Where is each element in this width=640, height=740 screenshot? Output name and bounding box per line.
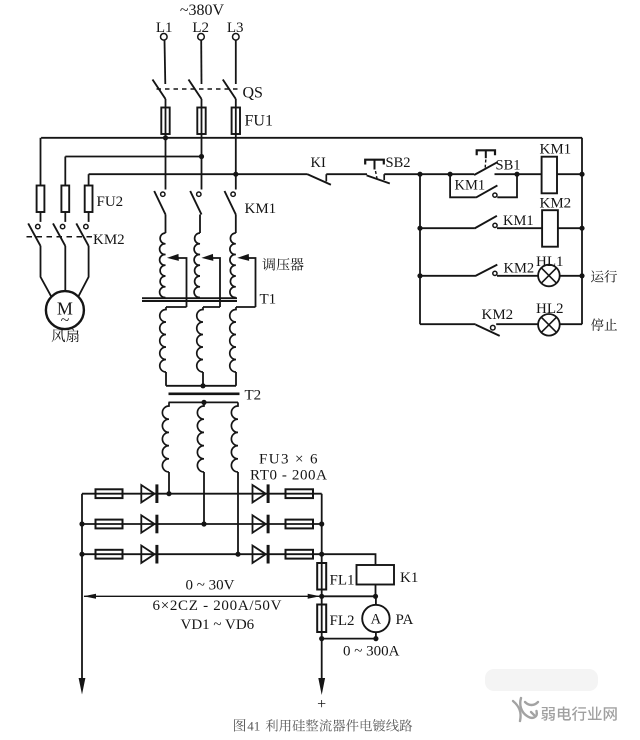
contactor KM2 coil <box>542 210 558 247</box>
label tingzhi (stop) <box>591 318 604 331</box>
fuse FU2 pole1 <box>37 186 45 213</box>
T1 wiper arrow 2 <box>203 255 213 261</box>
fuse FL row1 left <box>96 489 123 498</box>
wire row4 to HL2 <box>496 323 538 325</box>
svg-text:SB2: SB2 <box>386 155 411 171</box>
motor M fan <box>46 291 84 329</box>
transformer T1 winding 2 <box>194 233 200 298</box>
switch QS pole 3 blade <box>223 80 236 100</box>
pushbutton SB1 stem dash <box>484 160 487 168</box>
svg-text:KM2: KM2 <box>93 232 125 248</box>
contactor KM1 main contact 3 <box>231 192 235 196</box>
transformer T2 core line <box>169 392 240 395</box>
pushbutton SB2 fixed tick <box>383 174 385 180</box>
svg-text:FU1: FU1 <box>245 113 273 130</box>
contact KM1 self-hold blade <box>476 185 498 197</box>
svg-text:A: A <box>371 612 382 628</box>
wire L2 bus2 to KM1 <box>201 157 203 190</box>
wire HL2 to rail <box>560 323 582 325</box>
wire KM1-1 to T1 winding <box>165 215 167 234</box>
wire KM1 coil to rail <box>557 173 582 175</box>
wire bus phase-3 horizontal (control rail) <box>89 173 308 175</box>
node bus3-L3 junction <box>233 172 238 177</box>
wire L1 bus1 to KM1 <box>165 138 167 190</box>
motor caption fengshan <box>52 329 65 342</box>
wire FU2-2 to KM2 contact <box>64 212 66 222</box>
wire L3 to QS <box>235 40 237 84</box>
wire KM2-1 to motor <box>41 246 52 297</box>
svg-text:QS: QS <box>243 85 263 102</box>
relay contact KI blade <box>308 174 331 185</box>
contact KM1 row2 pivot <box>493 223 497 227</box>
wire FU2-3 to KM2 contact <box>88 212 90 222</box>
svg-text:0 ~ 30V: 0 ~ 30V <box>186 578 235 594</box>
contactor KM2 main contact 1 <box>36 224 40 228</box>
wire KM2 coil to rail <box>558 227 582 229</box>
wire HL1 to rail <box>560 275 582 277</box>
node secondary-A row1 junction <box>166 491 171 496</box>
wire row3 to HL1 <box>497 275 538 277</box>
wire positive bus row1 to FL1 <box>321 494 323 597</box>
wire L1 to QS <box>164 40 167 84</box>
node bus2-L2 junction <box>199 154 204 159</box>
diode VD2 left <box>141 515 154 532</box>
pushbutton SB1 blade <box>474 162 498 175</box>
wire PA top <box>375 596 377 605</box>
relay K1 coil <box>357 565 395 585</box>
contact KM2 row3 blade <box>475 265 497 277</box>
wire L2 to QS <box>200 40 202 84</box>
node rail row2 junction <box>579 226 584 231</box>
transformer T1 core line upper <box>142 297 237 299</box>
pushbutton SB2 cap <box>365 160 384 165</box>
T1 wiper arrow 3 <box>239 255 249 261</box>
wire rectifier row 1 <box>82 493 322 495</box>
pushbutton SB2 blade <box>367 175 390 183</box>
svg-text:HL2: HL2 <box>536 301 564 317</box>
node right bus row3 <box>319 552 324 557</box>
wire row2 left <box>420 227 474 229</box>
svg-text:KM1: KM1 <box>540 142 572 158</box>
svg-text:T1: T1 <box>260 292 277 308</box>
wire KM1-2 to T1 winding <box>199 215 201 234</box>
wire T2 primary 3 to star point <box>235 372 237 386</box>
wire bus1 drop to FU2-1 <box>40 138 42 186</box>
wire bus2 drop to FU2-2 <box>64 157 66 186</box>
pushbutton SB1 stem <box>485 150 487 158</box>
svg-text:KM2: KM2 <box>540 196 572 212</box>
wire K1 branch top <box>322 554 376 565</box>
wire QS to FU1 pole2 <box>201 99 203 157</box>
svg-text:PA: PA <box>396 612 414 628</box>
terminal L1 <box>161 34 168 41</box>
svg-text:~: ~ <box>61 312 70 329</box>
contactor KM2 main contact 2 <box>60 224 64 228</box>
node left bus row2 <box>79 521 84 526</box>
wire T2 secondary 1 to rectifier row 1 <box>168 472 170 494</box>
diode VD3 left <box>141 546 154 563</box>
svg-text:RT0 - 200A: RT0 - 200A <box>250 468 328 484</box>
wire wiper 3 jog to T2 primary <box>236 306 256 308</box>
watermark highlight band <box>485 669 598 691</box>
transformer T2 primary winding 3 <box>230 307 236 372</box>
fuse FU1 pole3 <box>232 108 240 135</box>
contactor KM1 main contact 1 <box>161 192 165 196</box>
node PA bottom junction <box>319 636 324 641</box>
wire KM2-3 to motor <box>78 246 88 297</box>
wire wiper 2 jog to T2 primary <box>203 306 220 308</box>
wire self-hold branch right <box>497 174 517 197</box>
node secondary-C row3 junction <box>235 552 240 557</box>
wire K1 branch bottom <box>322 585 376 597</box>
wire L3 bus3 to KM1 <box>235 174 237 189</box>
wire wiper 1 jog to T2 primary <box>166 306 187 308</box>
svg-text:FU2: FU2 <box>97 194 124 210</box>
contactor KM2 linkage dashed line <box>27 236 98 238</box>
diode VD4 right <box>253 485 266 502</box>
watermark logo <box>513 698 538 721</box>
lamp HL2 <box>538 314 560 336</box>
dimension line 0~30V <box>84 595 320 597</box>
svg-text:KM2: KM2 <box>504 261 535 277</box>
T1 regulator caption tiaoyaqi <box>262 258 275 271</box>
svg-text:VD1 ~ VD6: VD1 ~ VD6 <box>181 617 255 633</box>
wire KM1-3 to T1 winding <box>235 215 237 234</box>
relay contact KI fixed tick <box>325 174 327 181</box>
wire self-hold branch left <box>450 174 476 197</box>
fuse FL1 <box>317 563 326 590</box>
switch QS linkage dashed line <box>157 88 241 90</box>
fuse row3 right <box>286 550 314 559</box>
lamp HL1 <box>538 265 560 287</box>
svg-text:T2: T2 <box>245 388 262 404</box>
dimension arrowhead right <box>308 594 321 599</box>
terminal L3 <box>233 34 240 41</box>
diode VD1 left <box>141 485 154 502</box>
wire KM2-2 to motor <box>64 246 66 291</box>
wire QS to FU1 pole3 <box>235 99 237 174</box>
svg-text:K1: K1 <box>400 570 418 586</box>
switch QS pole 2 blade <box>189 80 202 100</box>
node rail row1 junction <box>579 172 584 177</box>
contactor KM1 main contact 2 <box>197 192 201 196</box>
wire T2 secondary top line <box>169 401 239 403</box>
transformer T2 primary winding 2 <box>197 307 203 372</box>
transformer T1 core line lower <box>142 300 237 302</box>
wire negative output bus <box>81 494 83 680</box>
node drop rail row2 <box>417 226 422 231</box>
terminal L2 <box>198 34 205 41</box>
contactor KM1 coil <box>542 157 557 194</box>
diode VD5 right <box>253 515 266 532</box>
wire rectifier row 3 <box>82 553 322 555</box>
ammeter PA <box>362 605 389 632</box>
negative output arrowhead <box>79 678 86 695</box>
fuse FU2 pole2 <box>61 186 69 213</box>
transformer T2 secondary winding 2 <box>197 402 204 472</box>
svg-text:FL2: FL2 <box>330 613 355 629</box>
svg-text:KM1: KM1 <box>455 178 486 194</box>
svg-text:6×2CZ - 200A/50V: 6×2CZ - 200A/50V <box>153 598 283 614</box>
dimension arrowhead left <box>84 594 97 599</box>
node rail row3 junction <box>579 273 584 278</box>
fuse FU1 pole2 <box>197 108 205 135</box>
contact KM2 row4 fixed pivot <box>491 325 496 330</box>
svg-text:+: + <box>317 696 326 713</box>
svg-text:KM1: KM1 <box>245 201 277 217</box>
fuse FU1 pole1 <box>161 108 169 135</box>
wire T2 primary 1 to star point <box>165 372 167 386</box>
wire SB1 to KM1 coil <box>495 173 542 175</box>
svg-text:FU3 × 6: FU3 × 6 <box>259 452 319 468</box>
wire rectifier row 2 <box>82 523 322 525</box>
svg-text:SB1: SB1 <box>496 158 521 174</box>
node bus1-L1 junction <box>163 135 168 140</box>
node drop rail row3 <box>417 273 422 278</box>
svg-text:FL1: FL1 <box>330 573 355 589</box>
node self-hold left junction <box>448 172 453 177</box>
node right bus row2 <box>319 521 324 526</box>
label yunxing (running) <box>591 270 603 282</box>
node T2 secondary junction <box>201 400 206 405</box>
wire positive output bus <box>321 639 323 680</box>
transformer T2 secondary winding 1 <box>162 402 169 472</box>
wire bus phase-1 horizontal <box>41 137 582 139</box>
wire KI to SB2 <box>326 173 367 175</box>
svg-text:41: 41 <box>247 719 260 734</box>
pushbutton SB2 stem <box>374 160 376 170</box>
fuse FL2 <box>317 605 326 633</box>
fuse FL row2 left <box>96 520 123 529</box>
node K1-PA junction <box>373 594 378 599</box>
node secondary-B row2 junction <box>201 521 206 526</box>
wire T2 primary star line <box>166 385 236 387</box>
svg-text:KI: KI <box>311 155 326 171</box>
fuse FU2 pole3 <box>85 186 93 213</box>
contact KM1 self-hold pivot <box>493 193 497 197</box>
wire PA bottom <box>322 632 376 638</box>
figure caption tu41 <box>234 719 245 732</box>
wire junction to SB1 <box>450 173 474 175</box>
node T2 primary star junction <box>200 383 205 388</box>
transformer T2 secondary winding 3 <box>231 402 238 472</box>
svg-text:HL1: HL1 <box>536 254 564 270</box>
node control drop junction <box>417 172 422 177</box>
contact KM2 row3 pivot <box>493 271 497 275</box>
svg-text:KM2: KM2 <box>482 307 514 323</box>
contact KM1 row2 blade <box>474 216 497 229</box>
diode VD6 right <box>253 546 266 563</box>
wire SB2 to junction <box>384 173 450 175</box>
wire row3 left <box>420 275 475 277</box>
wire T2 secondary 2 to rectifier row 2 <box>203 472 205 524</box>
transformer T1 winding 3 <box>230 233 236 298</box>
positive output arrowhead <box>318 678 325 695</box>
svg-text:0 ~ 300A: 0 ~ 300A <box>343 644 400 660</box>
T1 wiper arrow 1 <box>169 255 179 261</box>
wire T2 secondary 3 to rectifier row 3 <box>237 472 239 554</box>
svg-text:~380V: ~380V <box>180 2 225 19</box>
pushbutton SB2 stem dash <box>376 171 378 179</box>
fuse row2 right <box>286 520 314 529</box>
node FL1 bottom junction <box>319 594 324 599</box>
fuse row1 right <box>286 489 314 498</box>
wire control return rail top <box>581 138 583 324</box>
switch QS pole 1 blade <box>153 80 166 100</box>
contactor KM2 main contact 3 <box>84 224 88 228</box>
svg-text:KM1: KM1 <box>503 213 534 229</box>
wire bus phase-2 horizontal <box>65 156 201 158</box>
fuse FL row3 left <box>96 550 123 559</box>
wire FL2 to bottom junction <box>321 596 323 638</box>
node left bus row3 <box>79 552 84 557</box>
transformer T2 primary winding 1 <box>160 307 166 372</box>
transformer T1 winding 1 <box>160 233 166 298</box>
node SB1 right junction <box>514 172 519 177</box>
wire FU2-1 to KM2 contact <box>40 212 42 222</box>
wire QS to FU1 pole1 <box>165 99 167 138</box>
wire row4 left <box>420 323 476 325</box>
contact KM2 row4 NC blade <box>476 325 500 336</box>
watermark text ruodian hangye wang <box>541 707 555 721</box>
node PA bottom corner <box>373 636 378 641</box>
pushbutton SB1 cap <box>477 150 495 155</box>
wire T2 primary 2 to star point <box>202 372 204 386</box>
wire bus3 drop to FU2-3 <box>88 174 90 185</box>
wire control drop rail <box>419 174 421 324</box>
wire row2 to KM2 coil <box>497 227 542 229</box>
